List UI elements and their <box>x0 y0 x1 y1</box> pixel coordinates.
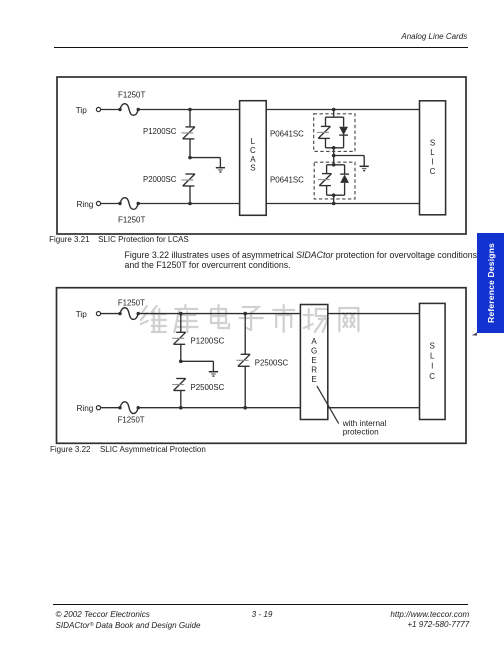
junction tip / branch2 (fig 3.22) <box>243 312 247 316</box>
label LCAS letters <box>250 137 256 173</box>
svg-text:L: L <box>430 148 435 157</box>
svg-text:Tip: Tip <box>76 106 88 115</box>
watermark glyph 5 <box>273 305 294 332</box>
fuse F1 (F1250T) on Tip <box>118 104 140 116</box>
header rule <box>54 47 468 49</box>
sidactor P1200SC <box>181 127 195 139</box>
svg-text:F1250T: F1250T <box>118 298 145 308</box>
svg-text:F1250T: F1250T <box>118 214 145 224</box>
wire ground lead down <box>219 158 221 168</box>
fuse F2 (F1250T) on Ring <box>118 198 140 210</box>
watermark glyph 2 <box>174 305 197 332</box>
dashed box lower P0641SC module <box>314 162 355 199</box>
wire fuse to LCAS (ring) <box>138 203 239 205</box>
junction tip / protection branch <box>332 108 336 112</box>
wire upper module bottom bar <box>326 147 344 149</box>
watermark glyph 3 <box>211 305 229 328</box>
block SLIC (fig 3.21) <box>420 101 446 215</box>
ground G1 <box>216 168 225 172</box>
wire LCAS to SLIC (tip) <box>266 109 419 111</box>
svg-text:F1250T: F1250T <box>118 89 145 99</box>
wire lower module top bar <box>327 164 345 166</box>
svg-text:A: A <box>311 337 317 346</box>
sidactor (upper module) <box>317 126 331 138</box>
wire to diode (lower module) <box>344 165 346 174</box>
junction Tip/P1200SC <box>188 108 192 112</box>
label SLIC letters (fig 3.22) <box>429 341 435 381</box>
wire Tip to fuse <box>101 109 120 111</box>
svg-text:L: L <box>251 137 256 146</box>
terminal Ring <box>96 201 100 205</box>
sidactor (lower module) <box>318 174 332 186</box>
block SLIC (fig 3.22) <box>420 303 446 419</box>
sidactor P2500SC branch2 <box>237 354 251 366</box>
caption figure 3.21 <box>49 235 189 244</box>
junction mid node fig21-right <box>332 154 336 158</box>
svg-text:P2000SC: P2000SC <box>143 174 176 184</box>
svg-text:P2500SC: P2500SC <box>255 358 288 368</box>
svg-text:R: R <box>311 365 317 374</box>
wire lower module to ring <box>333 195 335 203</box>
wire upper module top bar <box>326 116 344 118</box>
wire down to P1200SC (fig 3.22) <box>180 314 182 333</box>
wire AGERE to SLIC (tip) <box>328 313 420 315</box>
diode cathode-down (upper module) <box>339 127 348 135</box>
wire P1200SC to mid node <box>189 139 191 157</box>
sidactor P2000SC <box>181 174 195 186</box>
svg-text:E: E <box>311 356 316 365</box>
watermark glyph 4 <box>240 307 263 330</box>
junction Ring/P2000SC <box>188 202 192 206</box>
wire to sidactor (lower module) <box>326 165 328 174</box>
reference designs side tab <box>477 233 504 332</box>
figure 3.22 frame <box>57 288 467 444</box>
svg-text:P0641SC: P0641SC <box>270 174 304 184</box>
wire sidactor to bottom bar (upper) <box>325 139 327 148</box>
svg-text:C: C <box>430 167 436 176</box>
junction ring / branch1 (fig 3.22) <box>179 406 183 410</box>
junction ring / protection branch <box>332 202 336 206</box>
wire fuse to LCAS <box>138 109 239 111</box>
wire to sidactor (upper module) <box>325 117 327 127</box>
footer center page number <box>240 610 284 619</box>
wire sidactor to bottom bar (lower) <box>326 186 328 195</box>
junction mid node fig21-left <box>188 156 192 160</box>
svg-text:P1200SC: P1200SC <box>143 126 176 136</box>
svg-text:Ring: Ring <box>77 200 94 209</box>
wire down to P2500SC branch2 <box>244 314 246 355</box>
terminal Tip <box>96 107 100 111</box>
wire to diode (upper module) <box>343 117 345 127</box>
dashed box upper P0641SC module <box>314 114 355 152</box>
junction lower module bottom <box>332 193 336 197</box>
callout line: with internal protection <box>317 386 339 424</box>
block AGERE <box>300 305 327 420</box>
ground G3 <box>209 372 218 376</box>
svg-text:Ring: Ring <box>77 404 94 413</box>
junction tip / branch1 (fig 3.22) <box>179 312 183 316</box>
side tab label <box>477 233 504 332</box>
junction lower module top <box>332 163 336 167</box>
wire P2500SC branch2 to Ring <box>244 367 246 408</box>
wire Ring to fuse <box>101 203 120 205</box>
svg-text:I: I <box>431 158 433 167</box>
watermark glyph 7 <box>339 308 358 331</box>
sidactor P2500SC branch1 <box>172 379 186 391</box>
fuse F3 (F1250T) on Tip (fig 3.22) <box>118 308 140 320</box>
diode cathode-up (lower module) <box>340 174 349 183</box>
svg-text:F1250T: F1250T <box>118 414 145 424</box>
wire mid node to ground lead <box>190 157 220 159</box>
wire mid node to ground lead (fig 3.22) <box>181 360 214 362</box>
wire LCAS to SLIC (ring) <box>266 203 419 205</box>
ground G2 <box>360 166 369 170</box>
wire fuse to AGERE (tip) <box>138 313 300 315</box>
wire ground lead down (right) <box>363 156 365 167</box>
watermark glyph 6 <box>304 309 328 332</box>
svg-text:C: C <box>429 372 435 381</box>
caption figure 3.22 <box>50 445 206 454</box>
wire P1200SC to mid node (fig 3.22) <box>180 345 182 362</box>
label SLIC letters (fig 3.21) <box>430 139 436 177</box>
svg-text:S: S <box>430 139 435 148</box>
footer right <box>390 610 469 629</box>
wire down to P1200SC <box>189 110 191 127</box>
sidactor P1200SC (fig 3.22) <box>172 332 186 344</box>
wire diode to bottom bar (upper) <box>343 135 345 148</box>
svg-text:with internal: with internal <box>342 419 387 428</box>
footer rule <box>53 604 468 605</box>
wire Ring to fuse (fig 3.22) <box>101 407 120 409</box>
wire upper module to lower module <box>333 148 335 165</box>
wire P2500SC to Ring (fig 3.22) <box>180 391 182 408</box>
wire mid node to ground lead (right) <box>334 155 365 157</box>
terminal Tip (fig 3.22) <box>96 312 100 316</box>
wire fuse to AGERE (ring) <box>138 407 300 409</box>
wire AGERE to SLIC (ring) <box>328 407 420 409</box>
svg-text:C: C <box>250 146 256 155</box>
wire lower module bottom bar <box>327 194 345 196</box>
block LCAS <box>240 101 267 216</box>
header running title <box>401 32 467 41</box>
svg-text:P0641SC: P0641SC <box>270 129 304 139</box>
fuse F4 (F1250T) on Ring (fig 3.22) <box>118 402 140 414</box>
body paragraph <box>125 251 504 271</box>
svg-text:A: A <box>250 155 256 164</box>
svg-text:S: S <box>430 341 435 350</box>
side tab shadow sliver <box>468 330 482 338</box>
svg-text:I: I <box>431 362 433 371</box>
footer left <box>56 610 201 633</box>
svg-text:P1200SC: P1200SC <box>191 335 225 345</box>
junction mid node (fig 3.22) <box>179 360 183 364</box>
junction upper module bottom <box>332 146 336 150</box>
wire tip into upper module <box>333 110 335 118</box>
svg-text:S: S <box>250 164 255 173</box>
svg-text:protection: protection <box>343 428 379 437</box>
svg-text:G: G <box>311 347 317 356</box>
svg-text:Tip: Tip <box>76 310 88 319</box>
svg-text:E: E <box>311 375 316 384</box>
wire P2000SC to Ring <box>189 186 191 203</box>
svg-text:P2500SC: P2500SC <box>191 382 225 392</box>
watermark glyph 1 <box>141 306 166 332</box>
figure 3.21 frame <box>57 77 466 234</box>
label AGERE letters <box>311 337 317 384</box>
terminal Ring (fig 3.22) <box>96 406 100 410</box>
wire diode to bottom bar (lower) <box>344 183 346 195</box>
wire Tip to fuse (fig 3.22) <box>101 313 120 315</box>
svg-text:L: L <box>430 352 435 361</box>
wire ground lead down (fig 3.22) <box>212 361 214 371</box>
junction ring / branch2 (fig 3.22) <box>243 406 247 410</box>
